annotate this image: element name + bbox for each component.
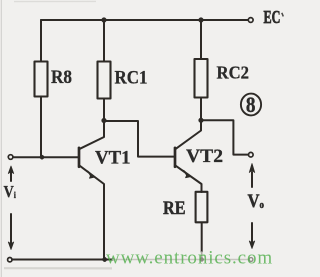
wire bottom rail faint under watermark	[113, 259, 249, 261]
junction node R8 base	[40, 155, 44, 159]
junction node VT1 collector	[102, 118, 107, 123]
svg-text:RC2: RC2	[217, 63, 250, 83]
svg-text:EC: EC	[264, 7, 281, 27]
wire bottom rail	[12, 259, 113, 261]
wire RE bottom	[201, 223, 203, 253]
terminal EC	[248, 18, 253, 23]
scan streak bottom	[4, 267, 112, 269]
wire RC2 top	[200, 20, 202, 59]
arrow Vo up	[249, 164, 254, 188]
resistor RC1	[98, 62, 111, 99]
svg-text:8: 8	[246, 92, 256, 117]
arrow Vi up	[8, 166, 13, 181]
junction node RC1 top	[102, 18, 107, 23]
wire VT2 collector to output	[201, 120, 248, 154]
svg-text:RC1: RC1	[115, 68, 148, 89]
wire RC2 bottom	[200, 98, 202, 121]
terminal bottom left	[8, 258, 12, 262]
svg-text:www.entronics.com: www.entronics.com	[106, 248, 273, 269]
scan streak top	[14, 0, 96, 2]
wire top power rail	[41, 19, 248, 21]
wire R8 bottom	[40, 97, 42, 158]
terminal input	[8, 155, 13, 160]
terminal bottom right	[249, 258, 253, 262]
svg-text:RE: RE	[163, 198, 186, 219]
wire RC1 top	[103, 20, 105, 62]
wire RE bottom faint tail	[201, 252, 203, 260]
arrow Vo down	[249, 223, 254, 249]
svg-text:VT1: VT1	[95, 149, 131, 169]
junction node RC2 top	[199, 18, 204, 23]
resistor RC2	[195, 59, 208, 98]
wire R8 top	[40, 20, 42, 62]
symbol circled 8	[241, 94, 261, 116]
wire RC1 bottom	[103, 99, 105, 121]
wire VT1 collector to VT2 base	[104, 121, 174, 157]
wire input to VT1 base	[13, 156, 78, 158]
transistor VT2	[175, 120, 202, 192]
svg-text:R8: R8	[51, 67, 72, 88]
arrow Vi down	[8, 214, 13, 250]
junction node VT1 emitter bottom	[103, 257, 107, 261]
junction node RE bottom	[200, 258, 204, 262]
transistor VT1	[79, 122, 104, 260]
terminal output	[249, 152, 254, 157]
junction node VT2 collector	[199, 118, 204, 123]
scan tick after EC	[282, 13, 284, 17]
scan edge left	[0, 0, 2, 277]
resistor RE	[196, 192, 208, 223]
svg-text:VT2: VT2	[186, 147, 223, 167]
resistor R8	[35, 62, 48, 97]
